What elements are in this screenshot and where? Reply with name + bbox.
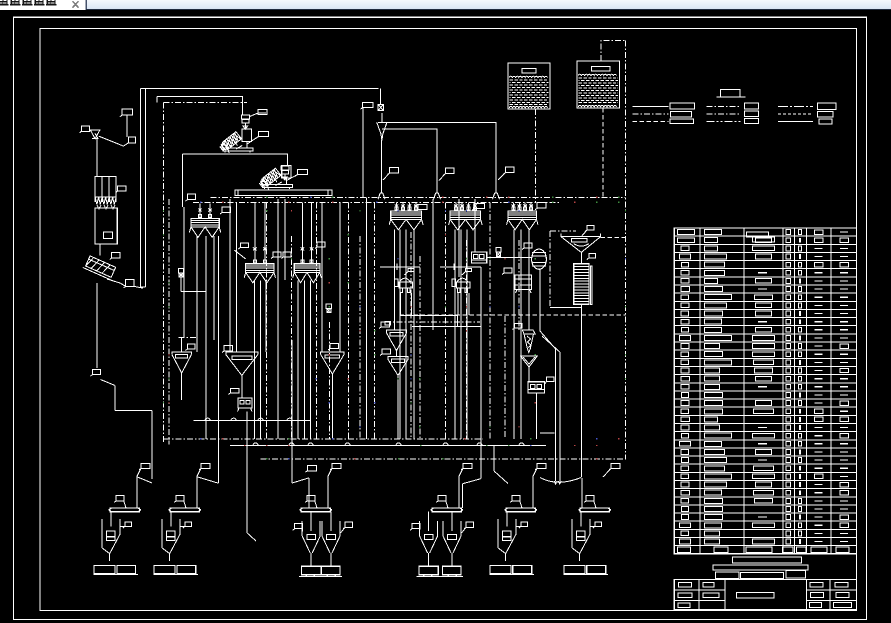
tab bar bottom edge xyxy=(86,9,891,10)
airlock valve xyxy=(326,304,331,308)
tab close button xyxy=(73,1,79,7)
v-funnel bar xyxy=(325,355,339,358)
sifter hoppers xyxy=(450,219,481,229)
sifter hoppers xyxy=(508,219,537,229)
collector inlet pipe xyxy=(327,477,329,508)
separator outlet xyxy=(107,279,126,286)
collector side label xyxy=(438,496,446,501)
collector base blocks xyxy=(94,566,115,574)
sifter r2u2 label right xyxy=(317,242,325,247)
top dash band line 1 xyxy=(211,196,626,198)
left inlet label xyxy=(81,126,89,132)
mill base xyxy=(263,185,293,188)
ladder bottom run xyxy=(550,306,581,308)
v-funnel bar xyxy=(176,355,188,358)
upper collect line xyxy=(194,420,311,422)
left label top xyxy=(122,109,132,115)
machine M3 discharge xyxy=(246,412,248,533)
collector bar xyxy=(301,508,331,512)
collector base blocks xyxy=(490,566,511,574)
legend group 1 sample lines xyxy=(633,105,669,107)
left drop to bin xyxy=(96,139,98,177)
funnel F3 drop xyxy=(331,380,333,439)
tab bar background xyxy=(0,0,891,10)
v-funnel bar xyxy=(390,332,403,335)
colored junction dots xyxy=(163,210,164,211)
collector base blocks xyxy=(419,566,438,574)
v-funnel xyxy=(172,352,191,355)
large bin label xyxy=(104,232,113,238)
bin fill level scallop xyxy=(509,76,547,77)
pipes from sifter r1u1 xyxy=(394,229,396,330)
title block cell boxes xyxy=(679,583,692,588)
funnel F2 label xyxy=(224,346,232,352)
sifter hoppers xyxy=(246,272,274,282)
detacher L2 label xyxy=(466,269,472,272)
mill tilted body xyxy=(258,168,283,191)
v-funnel xyxy=(386,330,406,333)
legend hat symbol xyxy=(720,90,740,98)
funnel F1 label xyxy=(188,344,196,349)
funnel F5 drop xyxy=(397,381,399,438)
legend group 3 labels xyxy=(818,103,836,109)
left dashdot rail 1 xyxy=(163,103,165,444)
sifter feed pipes with valves xyxy=(396,202,398,211)
bin outlet funnels xyxy=(97,205,101,209)
left dashdot rail 2 xyxy=(168,199,170,445)
bin bottom scallops xyxy=(509,106,547,108)
mill label xyxy=(297,170,307,175)
nested feed line outer xyxy=(378,123,496,193)
airlock on B1-M1 link xyxy=(496,248,501,252)
collector ground line xyxy=(299,575,342,577)
pipe drops from sifter A xyxy=(196,236,198,352)
collector base blocks xyxy=(154,566,175,574)
sifter hoppers xyxy=(294,272,320,282)
cyclone drop pair to unit 6 xyxy=(540,331,556,349)
collector inlet pipe xyxy=(196,477,198,508)
stacked bars below parts table xyxy=(733,557,802,563)
separator chute xyxy=(134,286,143,288)
collector hopper boxes xyxy=(166,531,175,536)
small machine M3 xyxy=(238,398,252,408)
collector twin hoppers xyxy=(302,521,320,553)
parts table cell boxes xyxy=(678,230,695,235)
bin bottom scallops xyxy=(578,105,616,107)
valve label drop to band xyxy=(362,108,364,198)
sifter box xyxy=(391,211,422,220)
collector hopper xyxy=(571,519,573,548)
collector hopper xyxy=(497,519,499,548)
unit 3 extra label xyxy=(307,466,316,471)
sifter box xyxy=(246,264,274,273)
sifter r1u3 label xyxy=(537,203,546,209)
feed jog above F4 xyxy=(400,315,457,317)
mill 1 feeder line label xyxy=(258,110,267,115)
drop labels above sifter row 1 xyxy=(390,168,399,174)
bin hatch fill xyxy=(579,77,619,79)
sifter r2u1 label xyxy=(240,243,248,248)
left lower jog xyxy=(114,386,116,411)
collector side label xyxy=(512,496,520,501)
long dashdot verticals center xyxy=(266,202,268,438)
parts table column lines xyxy=(699,228,701,554)
twin hopper labels xyxy=(295,524,303,529)
solid long verticals xyxy=(183,207,185,338)
legend group 3 sample lines xyxy=(778,105,813,107)
collector bar xyxy=(170,508,200,512)
v-funnel outlet xyxy=(181,373,183,379)
sifter feed pipes with valves xyxy=(512,202,514,211)
sifter box xyxy=(294,264,320,273)
lower dash band 1 xyxy=(164,438,483,440)
parts table row lines xyxy=(674,235,856,237)
pipes from sifter r1u2 xyxy=(454,229,456,438)
nested feed line inner xyxy=(382,129,437,193)
left small box xyxy=(128,137,135,143)
funnel F2 drop xyxy=(241,381,243,398)
collector side label xyxy=(586,496,594,501)
funnel F1 outlet drop xyxy=(181,373,183,400)
sifter hoppers xyxy=(391,219,422,229)
mill tilted body xyxy=(219,132,244,155)
long dashdot verticals right xyxy=(445,202,447,438)
left feed box line xyxy=(182,154,287,166)
machine M3 label xyxy=(230,388,238,393)
round machine M1 xyxy=(532,249,547,269)
storage bin 2 xyxy=(577,61,620,108)
collector twin hoppers xyxy=(420,521,438,553)
machine M1 label xyxy=(524,243,532,248)
collector outlet stem xyxy=(169,554,171,562)
v-funnel xyxy=(321,352,344,355)
collector inlet pipe xyxy=(136,477,138,508)
collector bar xyxy=(110,508,140,512)
top dash band line 2 xyxy=(193,201,560,203)
v-funnel xyxy=(226,352,258,355)
sifter r1u2 label xyxy=(474,204,484,209)
left feed box drop xyxy=(181,154,183,207)
detacher feed lines xyxy=(380,266,420,268)
unit 2 feed xyxy=(217,236,219,483)
left lower run xyxy=(115,410,152,412)
dashed drop below bin 2 xyxy=(602,108,604,197)
collector outlet stem xyxy=(579,554,581,562)
collector side label xyxy=(116,496,124,501)
unit 5 feed xyxy=(493,446,495,472)
flare feet on band xyxy=(378,193,385,200)
funnel F3 label xyxy=(330,344,338,349)
v-funnel bar xyxy=(392,359,405,362)
bin right label xyxy=(118,186,127,191)
v-funnel xyxy=(388,357,408,360)
bin fill level scallop xyxy=(578,74,616,75)
collector upper label xyxy=(463,464,472,469)
mid dash horizontal at 337 xyxy=(179,337,199,339)
v-funnel outlet xyxy=(331,374,333,380)
pipes from sifter row2 u1 xyxy=(254,280,256,438)
collector hopper boxes xyxy=(106,531,115,536)
funnel F4 label xyxy=(381,322,389,327)
collector ground line xyxy=(489,574,533,576)
unit 6 gather curve xyxy=(540,478,581,483)
collector hopper xyxy=(101,519,103,548)
box machine B2 label xyxy=(547,377,555,382)
unit 6 feed from ladder xyxy=(580,307,582,477)
collector bar xyxy=(432,508,462,512)
bin inner box xyxy=(522,68,536,72)
v-funnel bar xyxy=(232,356,252,359)
title block row lines left xyxy=(674,589,725,591)
sifter hoppers xyxy=(191,227,219,237)
tab title glyphs (cropped chinese text) xyxy=(0,4,9,6)
box machine B2 xyxy=(528,382,545,393)
sifter box xyxy=(450,211,481,220)
twin hopper labels xyxy=(412,524,420,529)
second header corner stub xyxy=(156,97,158,103)
left diverter link xyxy=(99,136,124,146)
collector base blocks xyxy=(564,566,585,574)
collector upper label xyxy=(201,464,210,469)
mill base xyxy=(223,148,253,151)
washer dash link right xyxy=(601,237,626,239)
title block outline xyxy=(674,580,856,610)
dash-dot riser over bin 2 xyxy=(601,41,626,62)
unit 6 inlet drop xyxy=(581,478,583,508)
dash-dot drop main right xyxy=(625,41,627,460)
feed valve at header end xyxy=(380,89,382,105)
left diverter valve xyxy=(90,130,100,139)
title block name box xyxy=(737,593,775,598)
airlock 1 discharge xyxy=(180,278,182,292)
sifter feed pipes with valves xyxy=(199,204,201,219)
collector outlet stem xyxy=(505,554,507,562)
three-compartment bin xyxy=(95,177,116,197)
mill 2 feeder stack xyxy=(281,166,289,170)
left dashdot top run xyxy=(164,102,248,104)
machine M2 xyxy=(515,275,532,290)
collector ground line xyxy=(153,574,197,576)
bin hatch fill xyxy=(510,79,549,81)
unit 3 feed xyxy=(291,340,293,483)
detacher L2 legs drop xyxy=(457,293,459,315)
brush machine B1 xyxy=(472,252,487,263)
title block column lines xyxy=(698,580,700,610)
collector inlet pipe xyxy=(532,477,534,508)
sifter feed pipes with valves xyxy=(301,203,303,264)
collector ground line xyxy=(563,574,607,576)
top feed header line xyxy=(140,88,378,90)
detacher dash link xyxy=(400,314,626,316)
big funnel outlet label xyxy=(589,254,596,258)
big washer funnel xyxy=(561,234,601,237)
detacher L1 label xyxy=(408,269,414,272)
plansifter A label xyxy=(188,194,196,200)
detacher body xyxy=(399,278,410,282)
collector hopper label xyxy=(185,522,192,526)
sifter box xyxy=(191,218,219,227)
mill 1 feeder stack xyxy=(241,115,249,119)
box machine B2 drop xyxy=(535,393,537,439)
dash-dot drop below bin 1 xyxy=(534,109,536,202)
mid dash horizontal at 322 xyxy=(385,321,480,323)
storage bin 1 xyxy=(508,63,550,109)
detacher body xyxy=(457,278,468,282)
collector inlet pipe xyxy=(458,477,460,508)
collector ground line xyxy=(416,575,463,577)
big funnel label xyxy=(587,225,594,230)
collector hopper label xyxy=(595,522,602,526)
collector upper label xyxy=(141,464,150,469)
platform under mills xyxy=(235,190,332,195)
legend group 2 labels xyxy=(745,103,759,109)
sifter feed pipes with valves xyxy=(455,202,457,211)
drop to separator xyxy=(99,244,101,255)
v-funnel outlet xyxy=(241,375,243,381)
collector ground line xyxy=(93,574,137,576)
collector hopper xyxy=(161,519,163,548)
lower dash band 4 xyxy=(260,458,625,460)
large bin xyxy=(95,208,117,244)
active tab xyxy=(0,0,86,10)
left lower label xyxy=(93,370,101,375)
v-funnel outlet xyxy=(396,351,398,357)
separator outlet label xyxy=(126,280,134,287)
feed valve label xyxy=(363,103,373,108)
cyclone C1 xyxy=(522,330,535,334)
v-funnel outlet xyxy=(397,375,399,381)
small sieve outlet xyxy=(528,367,530,382)
header funnel xyxy=(377,122,387,140)
small label at band left end xyxy=(385,321,391,325)
collector outlet stem xyxy=(109,554,111,562)
second header line to mill 1 feeder xyxy=(157,97,242,115)
inclined separator xyxy=(83,255,118,280)
collector bar xyxy=(506,508,536,512)
sifter r2u2 labels xyxy=(273,252,281,257)
parts table header cell extra xyxy=(747,232,769,237)
legend group 1 labels xyxy=(670,103,695,109)
sifter box xyxy=(508,211,537,220)
mill head box xyxy=(282,166,291,178)
collector hopper boxes xyxy=(576,531,585,536)
separator label xyxy=(112,252,120,258)
big funnel outlet xyxy=(580,252,582,263)
mill label xyxy=(258,131,268,136)
side stub line xyxy=(540,432,555,434)
parts table outline xyxy=(674,228,856,554)
lower solid collect line xyxy=(230,445,546,447)
collector hopper label xyxy=(125,522,132,526)
compartment zigzag bottoms xyxy=(95,197,102,205)
collector hopper boxes xyxy=(502,531,511,536)
sifter feed pipes with valves xyxy=(254,203,256,264)
collector upper label xyxy=(537,464,546,469)
small sieve S4 xyxy=(521,356,538,367)
collector upper label xyxy=(332,464,341,469)
left long drop 2 xyxy=(144,89,146,288)
legend group 2 sample lines xyxy=(707,105,742,107)
plansifter A label 2 xyxy=(222,207,231,213)
funnel F5 label xyxy=(382,349,390,354)
pipe drop into funnel F1 xyxy=(181,338,183,353)
link B1 to M1 xyxy=(487,256,532,258)
pipes from sifter row2 u2 xyxy=(297,280,299,438)
cyclone C1 label xyxy=(515,324,523,329)
funnel F4-F5 link xyxy=(396,351,398,357)
airlock valve xyxy=(178,269,183,273)
header drop to sifter 1 xyxy=(381,140,383,193)
machine M2 label xyxy=(504,268,512,273)
collector side label xyxy=(176,496,184,501)
pipes from sifter r1u3 xyxy=(513,229,515,438)
detacher legs xyxy=(457,288,460,293)
left long drop 1 xyxy=(139,89,141,288)
title block right cell boxes xyxy=(810,583,823,588)
unit 1 feed xyxy=(151,411,153,479)
mill head box xyxy=(242,129,251,141)
collector hopper label xyxy=(521,522,528,526)
left lower drop xyxy=(96,283,98,368)
washer dash link left xyxy=(549,231,551,307)
bin inner box xyxy=(592,66,610,70)
collector base blocks xyxy=(302,566,321,574)
mill 1 feeder leader xyxy=(250,113,258,117)
unit 4 feed xyxy=(480,267,482,479)
detacher legs xyxy=(400,288,403,293)
detacher L1 legs drop xyxy=(400,293,402,315)
sifter r1u1 label xyxy=(418,204,427,209)
collector upper label xyxy=(611,464,620,469)
title block row lines right xyxy=(807,589,857,591)
collector side label xyxy=(307,496,315,501)
left leader to diverter xyxy=(126,115,128,137)
collector bar xyxy=(580,508,610,512)
bucket ladder column xyxy=(574,264,589,305)
